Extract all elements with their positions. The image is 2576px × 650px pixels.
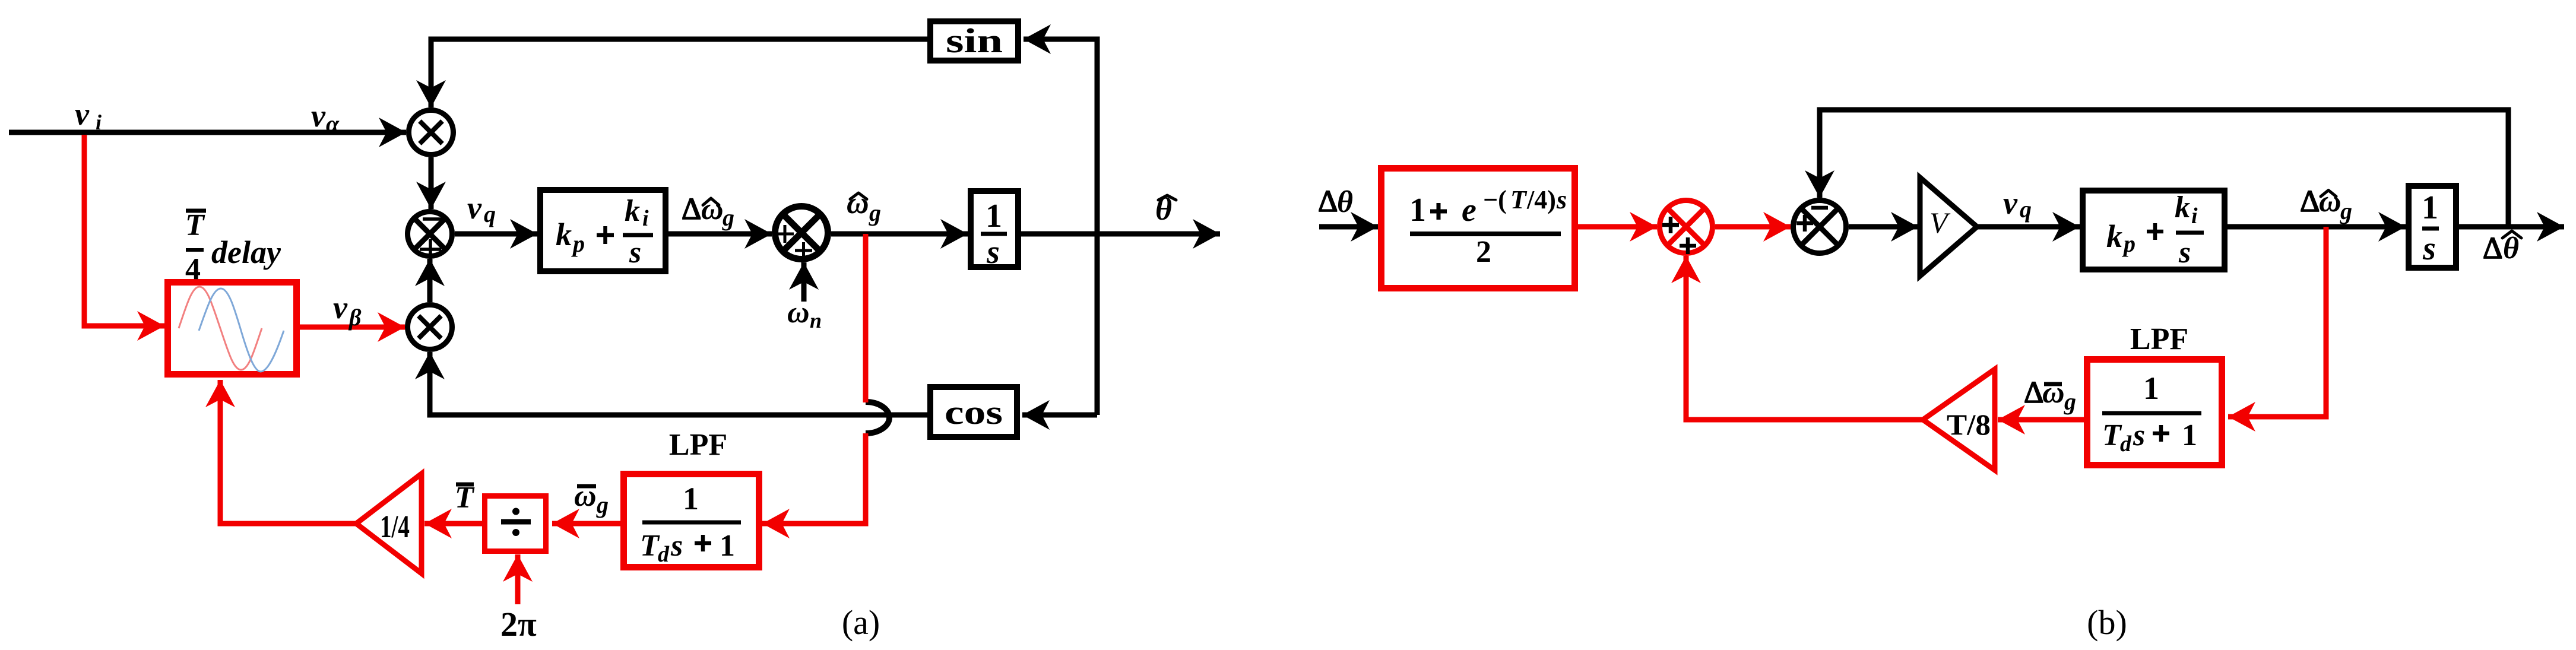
svg-text:π: π bbox=[518, 605, 537, 643]
svg-text:s: s bbox=[2133, 418, 2145, 452]
svg-text:β: β bbox=[348, 304, 362, 331]
svg-text:n: n bbox=[810, 309, 822, 332]
svg-text:v: v bbox=[333, 290, 348, 325]
svg-text:s: s bbox=[629, 236, 641, 269]
svg-text:d: d bbox=[2120, 432, 2132, 456]
svg-text:ω: ω bbox=[787, 296, 810, 329]
svg-text:1: 1 bbox=[1409, 192, 1426, 229]
svg-text:v: v bbox=[467, 190, 482, 226]
svg-text:v: v bbox=[75, 96, 90, 132]
svg-text:g: g bbox=[596, 492, 609, 518]
svg-text:s: s bbox=[670, 529, 683, 563]
svg-text:k: k bbox=[2175, 191, 2190, 224]
svg-text:2: 2 bbox=[500, 605, 518, 643]
svg-text:g: g bbox=[2340, 198, 2352, 224]
svg-text:(b): (b) bbox=[2087, 603, 2127, 642]
svg-text:Δ: Δ bbox=[2300, 185, 2320, 218]
svg-text:s: s bbox=[2178, 236, 2191, 269]
svg-text:θ: θ bbox=[1337, 185, 1353, 219]
svg-text:T: T bbox=[640, 529, 660, 563]
svg-text:1: 1 bbox=[986, 198, 1002, 234]
svg-text:Δ: Δ bbox=[1318, 185, 1338, 218]
svg-text:T/8: T/8 bbox=[1947, 408, 1991, 441]
svg-text:ω: ω bbox=[847, 186, 869, 220]
svg-text:k: k bbox=[2106, 218, 2122, 254]
svg-text:i: i bbox=[642, 206, 649, 231]
svg-text:α: α bbox=[326, 110, 340, 137]
svg-text:1: 1 bbox=[720, 529, 735, 563]
svg-text:s: s bbox=[986, 234, 1000, 271]
svg-text:(a): (a) bbox=[842, 603, 880, 642]
svg-text:v: v bbox=[311, 98, 326, 134]
svg-text:LPF: LPF bbox=[669, 428, 727, 462]
svg-text:Δ: Δ bbox=[682, 192, 701, 226]
svg-text:ω: ω bbox=[2042, 376, 2065, 410]
svg-text:/4): /4) bbox=[1526, 185, 1556, 214]
svg-text:i: i bbox=[2191, 204, 2198, 229]
svg-text:k: k bbox=[625, 194, 640, 228]
svg-text:1: 1 bbox=[2422, 189, 2438, 226]
svg-text:2: 2 bbox=[1476, 235, 1491, 269]
svg-text:p: p bbox=[2122, 230, 2135, 257]
svg-text:q: q bbox=[2020, 196, 2032, 223]
svg-text:cos: cos bbox=[945, 393, 1003, 432]
svg-text:ω: ω bbox=[2319, 185, 2341, 218]
svg-text:s: s bbox=[1556, 185, 1567, 214]
svg-text:g: g bbox=[2064, 388, 2076, 415]
svg-text:v: v bbox=[2003, 185, 2018, 221]
svg-text:d: d bbox=[658, 542, 670, 567]
svg-text:delay: delay bbox=[211, 234, 281, 270]
svg-text:T: T bbox=[185, 208, 205, 242]
svg-text:e: e bbox=[1462, 192, 1476, 229]
svg-text:p: p bbox=[571, 230, 585, 257]
svg-text:T: T bbox=[1510, 185, 1528, 214]
svg-text:q: q bbox=[484, 201, 496, 227]
svg-text:Δ: Δ bbox=[2483, 232, 2502, 265]
svg-text:k: k bbox=[556, 217, 572, 252]
svg-text:ω: ω bbox=[701, 192, 724, 226]
svg-text:s: s bbox=[2422, 230, 2436, 267]
svg-text:−(: −( bbox=[1483, 185, 1507, 214]
svg-text:1: 1 bbox=[683, 481, 699, 516]
svg-text:Δ: Δ bbox=[2024, 376, 2043, 410]
svg-text:LPF: LPF bbox=[2130, 322, 2188, 356]
svg-text:1: 1 bbox=[2182, 418, 2197, 452]
svg-text:sin: sin bbox=[946, 21, 1003, 60]
svg-text:g: g bbox=[722, 204, 734, 231]
svg-text:1/4: 1/4 bbox=[380, 509, 410, 544]
svg-text:i: i bbox=[96, 110, 102, 134]
svg-text:4: 4 bbox=[185, 252, 201, 286]
svg-text:g: g bbox=[869, 199, 881, 226]
svg-text:T: T bbox=[2102, 418, 2122, 452]
svg-text:1: 1 bbox=[2143, 370, 2159, 406]
